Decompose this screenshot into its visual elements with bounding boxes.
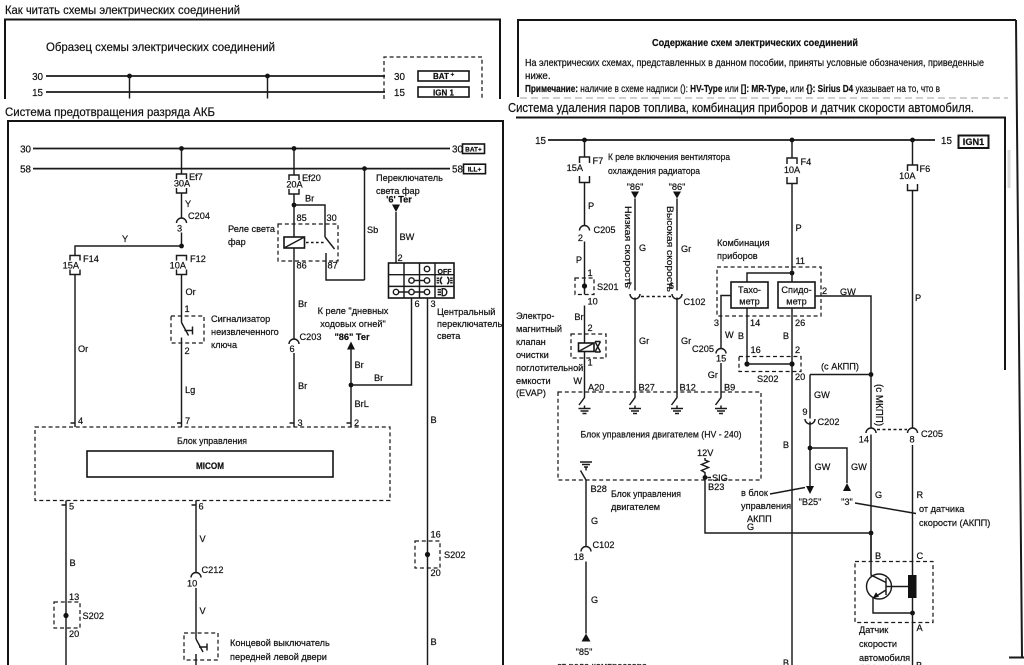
svg-text:C102: C102 bbox=[684, 297, 706, 307]
svg-text:F6: F6 bbox=[920, 164, 931, 174]
svg-text:S202: S202 bbox=[83, 611, 104, 621]
wire G into sensor pin B bbox=[871, 533, 881, 562]
svg-text:B: B bbox=[431, 415, 437, 425]
wire W from EVAP to ECM pin A20 bbox=[573, 358, 604, 393]
node: junction G line from ECM bbox=[869, 531, 874, 536]
connector C102 pins 7 / 6 bbox=[627, 281, 706, 307]
label: engine control module bbox=[611, 489, 681, 512]
wire V from MICOM pin 6 to C212 bbox=[196, 501, 207, 573]
svg-text:"86": "86" bbox=[669, 182, 686, 192]
svg-text:Сигнализатор: Сигнализатор bbox=[211, 314, 270, 324]
svg-text:BAT+: BAT+ bbox=[465, 147, 482, 154]
svg-text:3: 3 bbox=[177, 224, 182, 234]
wire from C204 to junction bbox=[181, 233, 183, 247]
wire Lg from switch pin 2 to MICOM pin 7 bbox=[182, 343, 196, 427]
node: junction bus30 / Ef7 bbox=[179, 146, 184, 151]
wire Br branch to light switch pin 6 bbox=[351, 298, 420, 385]
svg-text:5: 5 bbox=[69, 502, 74, 512]
svg-text:"B25": "B25" bbox=[799, 497, 822, 507]
wire B23 SIG down and right to sensor column bbox=[705, 478, 871, 534]
svg-text:G: G bbox=[639, 243, 646, 253]
svg-text:G: G bbox=[875, 490, 882, 500]
svg-text:(с АКПП): (с АКПП) bbox=[821, 362, 859, 372]
title: how to read wiring diagrams bbox=[5, 3, 240, 17]
node: sensor emitter junction pin A bbox=[910, 611, 923, 665]
label: instrument cluster bbox=[717, 238, 770, 261]
svg-text:15A: 15A bbox=[63, 261, 80, 271]
wire Gr from C205-15 to ECM pin B9 bbox=[708, 363, 735, 393]
svg-text:Содержание схем электрических: Содержание схем электрических соединений bbox=[652, 38, 858, 49]
svg-text:Br: Br bbox=[574, 312, 583, 322]
svg-text:6: 6 bbox=[290, 344, 295, 354]
svg-text:"3": "3" bbox=[841, 497, 853, 507]
svg-text:GW: GW bbox=[851, 462, 867, 472]
node: junction Y-branch bbox=[179, 244, 184, 249]
svg-text:Переключатель: Переключатель bbox=[376, 173, 443, 183]
svg-text:охлаждения радиатора: охлаждения радиатора bbox=[608, 166, 701, 176]
svg-text:клапан: клапан bbox=[516, 337, 546, 347]
svg-text:15: 15 bbox=[941, 136, 952, 147]
svg-text:C: C bbox=[917, 551, 924, 561]
svg-text:Примечание: наличие в схеме на: Примечание: наличие в схеме надписи (): … bbox=[525, 84, 940, 95]
svg-text:15: 15 bbox=[535, 136, 546, 147]
fuse Ef7 30A bbox=[174, 172, 203, 193]
page edge soft shadow bbox=[1008, 150, 1011, 188]
svg-text:Высокая скорость: Высокая скорость bbox=[665, 206, 675, 292]
wire Br from C203 to MICOM pin 3 bbox=[294, 353, 307, 428]
node: junction bus15 / F4 bbox=[790, 138, 795, 158]
svg-text:MICOM: MICOM bbox=[196, 461, 224, 472]
svg-text:B: B bbox=[70, 558, 76, 568]
connector C205 pin 2 bbox=[578, 225, 616, 243]
svg-text:"86" Ter: "86" Ter bbox=[334, 332, 370, 342]
label: low speed (vertical) bbox=[623, 206, 633, 288]
instrument cluster (dashed box) bbox=[717, 267, 821, 316]
svg-text:S201: S201 bbox=[597, 282, 618, 292]
svg-text:11: 11 bbox=[796, 256, 806, 266]
svg-text:2: 2 bbox=[185, 346, 190, 356]
svg-text:4: 4 bbox=[78, 416, 83, 426]
svg-text:ILL+: ILL+ bbox=[468, 167, 482, 174]
label: to daytime running lights relay bbox=[318, 306, 389, 342]
node: junction Br / BrL bbox=[349, 383, 354, 388]
wire C through sensor bbox=[913, 551, 924, 613]
svg-text:Y: Y bbox=[185, 199, 191, 209]
fuse Ef20 20A bbox=[286, 173, 321, 194]
svg-text:30: 30 bbox=[394, 72, 405, 83]
connector C102 pin 18 bbox=[574, 540, 615, 562]
fuse F6 10A bbox=[899, 164, 930, 191]
svg-text:C203: C203 bbox=[300, 332, 322, 342]
svg-text:26: 26 bbox=[795, 318, 805, 328]
svg-text:2: 2 bbox=[578, 233, 583, 243]
relay link (dashed) coil to contact bbox=[306, 242, 324, 244]
svg-text:W: W bbox=[573, 376, 582, 386]
headlamp relay (dashed box) bbox=[278, 224, 338, 261]
svg-text:управления: управления bbox=[741, 501, 791, 511]
label: key-left-in warning buzzer bbox=[211, 314, 279, 350]
paragraph line 1 bbox=[525, 58, 984, 69]
label: engine control module (HV - 240) bbox=[581, 430, 742, 440]
svg-text:1: 1 bbox=[588, 268, 593, 278]
svg-text:Gr: Gr bbox=[681, 336, 691, 346]
arrow terminal "85" from compressor relay bbox=[576, 634, 593, 658]
svg-text:К реле включения вентилятора: К реле включения вентилятора bbox=[608, 152, 731, 162]
connector C205 pin 15 bbox=[692, 344, 726, 364]
svg-text:Or: Or bbox=[78, 344, 88, 354]
relay coil bbox=[284, 224, 305, 261]
wire B from speedo pin 26 to S202 bbox=[783, 308, 805, 372]
svg-text:F7: F7 bbox=[593, 156, 604, 166]
fuse F12 10A bbox=[170, 254, 206, 275]
arrow up from "3" bbox=[841, 483, 853, 507]
wire: sample bus 30 bbox=[32, 72, 385, 83]
wire below S202 left bbox=[65, 628, 67, 665]
fuse F7 15A bbox=[567, 156, 604, 183]
icon: parking lights bbox=[437, 277, 453, 284]
svg-text:2: 2 bbox=[588, 323, 593, 333]
bus 58 bbox=[20, 165, 463, 176]
svg-text:ниже.: ниже. bbox=[525, 71, 551, 82]
connector C203 pin 6 bbox=[289, 332, 321, 354]
wire B from light switch pin 3 down bbox=[428, 298, 441, 568]
svg-text:Система удаления паров топлива: Система удаления паров топлива, комбинац… bbox=[508, 100, 974, 115]
splice S202 right (dashed) bbox=[415, 541, 465, 578]
svg-text:ключа: ключа bbox=[211, 340, 238, 350]
wire Y from Ef7 to C204 bbox=[182, 193, 192, 218]
svg-text:Br: Br bbox=[298, 381, 307, 391]
svg-text:87: 87 bbox=[328, 261, 338, 271]
arrow down from headlamp switch bbox=[392, 205, 400, 213]
svg-text:(с МКПП): (с МКПП) bbox=[873, 384, 884, 426]
wire Gr high speed to C102 pin 6 bbox=[677, 199, 691, 291]
svg-text:BAT: BAT bbox=[433, 72, 449, 81]
svg-text:Gr: Gr bbox=[681, 244, 691, 254]
svg-text:W: W bbox=[725, 330, 734, 340]
svg-text:30: 30 bbox=[20, 145, 31, 156]
svg-text:Br: Br bbox=[355, 360, 364, 370]
sensor transistor bbox=[867, 562, 913, 614]
svg-text:20A: 20A bbox=[286, 180, 303, 190]
svg-text:9: 9 bbox=[802, 407, 807, 417]
wire GW from speedo pin 2 bbox=[815, 286, 871, 428]
svg-text:B: B bbox=[738, 331, 744, 341]
svg-text:15: 15 bbox=[716, 354, 726, 364]
svg-text:10A: 10A bbox=[899, 171, 916, 181]
svg-text:C202: C202 bbox=[818, 417, 840, 427]
EVAP purge solenoid valve (dashed) bbox=[571, 334, 606, 358]
svg-text:GW: GW bbox=[814, 390, 830, 400]
wire P from F4 to cluster pin 11 bbox=[792, 184, 805, 268]
label: to radiator cooling fan relay bbox=[608, 152, 731, 176]
node: junction GW (с АКПП) bbox=[810, 362, 873, 377]
svg-text:Электро-: Электро- bbox=[516, 311, 554, 321]
label: vehicle speed sensor bbox=[859, 625, 910, 665]
svg-text:30A: 30A bbox=[174, 179, 191, 189]
splice S202 (dashed) with bridge bbox=[739, 357, 805, 385]
svg-text:Br: Br bbox=[298, 299, 307, 309]
svg-text:Ef20: Ef20 bbox=[302, 173, 321, 183]
svg-text:15A: 15A bbox=[567, 163, 584, 173]
node: junction Br branch to relay pin 30 bbox=[292, 194, 325, 238]
relay contact blade 30-87 bbox=[325, 237, 335, 261]
label: (with MT) vertical bbox=[873, 384, 884, 426]
svg-text:C205: C205 bbox=[692, 344, 714, 354]
svg-text:+: + bbox=[451, 72, 455, 79]
ECM internal switch+ground pin B27 bbox=[629, 392, 641, 414]
svg-text:ходовых огней": ходовых огней" bbox=[320, 319, 386, 329]
svg-text:B28: B28 bbox=[591, 484, 607, 494]
connector C202 pin 9 bbox=[802, 407, 839, 427]
svg-text:G: G bbox=[591, 516, 598, 526]
wire Sb from bus 58 bbox=[362, 166, 378, 280]
svg-text:G: G bbox=[747, 522, 754, 532]
svg-text:85: 85 bbox=[297, 213, 307, 223]
label: control unit bbox=[177, 436, 247, 446]
svg-text:GW: GW bbox=[815, 462, 831, 472]
label: EVAP canister purge solenoid bbox=[516, 311, 583, 398]
svg-text:16: 16 bbox=[431, 530, 441, 540]
label: headlamp switch '6' Ter bbox=[376, 173, 443, 205]
svg-text:R: R bbox=[917, 490, 924, 500]
svg-text:1: 1 bbox=[185, 304, 190, 314]
svg-text:B: B bbox=[916, 661, 922, 665]
wire Y branch to F14 bbox=[75, 234, 182, 256]
wire: bus30 down to fuse Ef7 bbox=[181, 149, 183, 175]
icon: headlights bbox=[438, 289, 447, 296]
right panel frame bbox=[516, 118, 1005, 371]
sample subtitle bbox=[46, 40, 275, 54]
note line bbox=[525, 84, 940, 95]
title: contents of wiring diagrams bbox=[652, 38, 858, 49]
wire Gr from C102-6 to ECM pin B12 bbox=[677, 298, 696, 393]
terminal "86" low speed bbox=[627, 182, 644, 199]
svg-text:B: B bbox=[783, 331, 789, 341]
terminal "86" high speed bbox=[669, 182, 686, 199]
node: sample junction dot 1 on bus 30 bbox=[127, 74, 132, 99]
svg-text:3: 3 bbox=[714, 318, 719, 328]
vehicle speed sensor (dashed box) bbox=[855, 562, 933, 623]
label: front left door limit switch bbox=[230, 638, 330, 662]
svg-text:V: V bbox=[200, 606, 207, 616]
wire B from MICOM pin 5 bbox=[66, 501, 79, 629]
wire B28 from ECM down to C102 pin 18 bbox=[586, 480, 607, 547]
svg-text:Образец схемы электрических с: Образец схемы электрических соединений bbox=[46, 40, 275, 54]
wire B from tacho pin 14 to S202 bbox=[738, 308, 761, 364]
svg-text:На электрических схемах, предс: На электрических схемах, представленных … bbox=[525, 58, 984, 69]
section title: battery discharge prevention system bbox=[5, 105, 215, 119]
svg-text:16: 16 bbox=[751, 345, 761, 355]
svg-text:емкости: емкости bbox=[516, 376, 551, 386]
wire P from C205 to S201 bbox=[576, 242, 593, 295]
svg-text:GW: GW bbox=[840, 287, 856, 297]
page edge line (scan artifact) bbox=[1009, 20, 1024, 658]
wire from relay 87 to Sb wire bbox=[326, 261, 365, 280]
svg-text:13: 13 bbox=[69, 592, 79, 602]
svg-text:20: 20 bbox=[795, 372, 805, 382]
svg-text:Комбинация: Комбинация bbox=[717, 238, 770, 248]
wire P from F6 to C205 pin 8 bbox=[913, 191, 922, 429]
key-in reminder switch (dashed) bbox=[171, 316, 204, 343]
svg-text:К реле "дневных: К реле "дневных bbox=[318, 306, 389, 316]
svg-text:C212: C212 bbox=[202, 565, 224, 575]
svg-text:метр: метр bbox=[739, 297, 759, 307]
svg-text:10: 10 bbox=[588, 297, 598, 307]
svg-text:12V: 12V bbox=[697, 448, 714, 458]
splice S202 left (dashed) bbox=[54, 602, 104, 639]
svg-text:"86": "86" bbox=[627, 182, 644, 192]
svg-text:Реле света: Реле света bbox=[228, 224, 276, 234]
svg-text:Система предотвращения разряда: Система предотвращения разряда АКБ bbox=[5, 105, 215, 119]
switch contacts row headlights bbox=[393, 289, 429, 294]
wire: sample bus 15 bbox=[32, 88, 385, 99]
wire P from F7 to C205 pin 2 bbox=[585, 183, 595, 226]
svg-text:OFF: OFF bbox=[438, 269, 453, 276]
svg-text:86: 86 bbox=[297, 261, 307, 271]
wire G low speed to C102 pin 7 bbox=[635, 199, 646, 291]
svg-text:'6' Ter: '6' Ter bbox=[386, 195, 412, 205]
svg-text:приборов: приборов bbox=[717, 251, 758, 261]
svg-text:15: 15 bbox=[394, 88, 405, 99]
wire bus30 down to fuse Ef20 bbox=[293, 149, 295, 176]
svg-text:BW: BW bbox=[400, 232, 415, 242]
label: to AT control unit with callout bbox=[741, 488, 805, 525]
wire B from S202-20 down (long) bbox=[783, 372, 792, 665]
ECM 12V pull-up and SIG bbox=[697, 448, 728, 483]
MICOM inner box bbox=[87, 451, 333, 477]
central light switch grid bbox=[389, 263, 455, 298]
svg-text:фар: фар bbox=[228, 237, 246, 247]
svg-text:10: 10 bbox=[187, 579, 197, 589]
node: junction bus30 / Ef20 bbox=[292, 146, 297, 151]
wire Br from relay 86 to C203 bbox=[294, 261, 307, 339]
svg-text:Блок управления: Блок управления bbox=[611, 489, 681, 499]
relay pin labels 85 / 30 bbox=[297, 213, 337, 223]
wire W from tacho pin 3 bbox=[714, 296, 734, 349]
ECM internal switch+ground pin A20 bbox=[579, 392, 591, 414]
svg-text:P: P bbox=[796, 223, 802, 233]
svg-text:B: B bbox=[431, 637, 437, 647]
bus label box ILL+ bbox=[464, 164, 486, 174]
svg-text:(EVAP): (EVAP) bbox=[516, 388, 546, 398]
svg-text:Sb: Sb bbox=[367, 225, 378, 235]
svg-text:15: 15 bbox=[32, 88, 43, 99]
svg-text:10A: 10A bbox=[784, 165, 801, 175]
svg-text:от реле компрессора: от реле компрессора bbox=[557, 661, 648, 665]
svg-text:G: G bbox=[591, 595, 598, 605]
svg-text:14: 14 bbox=[859, 435, 869, 445]
wire Br from S201 to EVAP valve bbox=[574, 306, 592, 335]
switch contacts row OFF bbox=[424, 266, 452, 276]
svg-text:очистки: очистки bbox=[516, 350, 549, 360]
relay pin labels 86 / 87 bbox=[297, 261, 338, 271]
svg-text:Br: Br bbox=[305, 194, 314, 204]
svg-text:3: 3 bbox=[431, 299, 436, 309]
connector C212 pin 10 bbox=[187, 565, 223, 589]
svg-text:Br: Br bbox=[374, 373, 383, 383]
svg-text:IGN1: IGN1 bbox=[963, 137, 984, 147]
svg-text:B: B bbox=[875, 551, 881, 561]
svg-text:A: A bbox=[917, 623, 924, 633]
svg-text:18: 18 bbox=[574, 552, 584, 562]
svg-text:10A: 10A bbox=[170, 261, 187, 271]
fuse F14 15A bbox=[63, 254, 99, 275]
tachometer box bbox=[731, 282, 768, 308]
svg-text:P: P bbox=[576, 255, 582, 265]
svg-text:света: света bbox=[437, 331, 461, 341]
node: sample junction dot 2 on bus 30 bbox=[265, 74, 270, 99]
svg-text:V: V bbox=[200, 534, 207, 544]
svg-text:B: B bbox=[783, 658, 789, 665]
svg-text:Спидо-: Спидо- bbox=[781, 285, 811, 295]
wire Or from F12 to key-in switch bbox=[182, 275, 196, 317]
svg-text:B: B bbox=[783, 440, 789, 450]
label: from speed sensor (AT) with callout bbox=[855, 503, 990, 528]
svg-text:C204: C204 bbox=[188, 211, 210, 221]
svg-text:передней левой двери: передней левой двери bbox=[230, 652, 327, 662]
svg-text:Тахо-: Тахо- bbox=[738, 285, 761, 295]
svg-text:B9: B9 bbox=[724, 383, 735, 393]
wire from Ef20 to relay pin 85 bbox=[293, 194, 295, 224]
svg-text:двигателем: двигателем bbox=[611, 502, 660, 512]
svg-text:1: 1 bbox=[588, 358, 593, 368]
MICOM control unit (dashed box) bbox=[35, 427, 390, 501]
ECM internal ground+switch pin B28 bbox=[580, 462, 592, 480]
svg-text:2: 2 bbox=[822, 286, 827, 296]
MICOM top pin labels 4 7 bbox=[78, 416, 190, 426]
svg-text:6: 6 bbox=[415, 299, 420, 309]
connector C205 pins 14 / 8 bbox=[859, 428, 943, 445]
fuse F4 10A bbox=[784, 157, 811, 184]
node: junction GW split bbox=[808, 446, 868, 483]
svg-text:IGN 1: IGN 1 bbox=[433, 89, 454, 98]
svg-text:автомобиля: автомобиля bbox=[859, 653, 910, 663]
svg-text:Lg: Lg bbox=[185, 385, 195, 395]
wire Br from DRL arrow down bbox=[351, 350, 364, 428]
power designation box IGN 1 bbox=[418, 87, 469, 98]
svg-text:в блок: в блок bbox=[741, 488, 769, 498]
svg-text:Датчик: Датчик bbox=[859, 625, 889, 635]
engine control module (dashed box) bbox=[558, 392, 761, 480]
svg-text:Концевой выключатель: Концевой выключатель bbox=[230, 638, 330, 648]
svg-text:B12: B12 bbox=[680, 383, 696, 393]
svg-text:"85": "85" bbox=[576, 647, 593, 657]
svg-text:F12: F12 bbox=[190, 254, 206, 264]
wire R from C205-8 to sensor pin C bbox=[913, 445, 924, 575]
svg-text:переключатель: переключатель bbox=[437, 319, 502, 329]
speedometer box bbox=[778, 282, 815, 308]
svg-text:Ef7: Ef7 bbox=[189, 172, 203, 182]
power designation box BAT+ bbox=[418, 71, 469, 81]
arrow up to DRL relay bbox=[347, 342, 355, 350]
svg-text:поглотительной: поглотительной bbox=[516, 363, 583, 373]
svg-text:P: P bbox=[588, 201, 594, 211]
connector C204 pin 3 bbox=[177, 211, 210, 234]
wire Gr from C102-7 to ECM pin B27 bbox=[635, 298, 655, 393]
wire GW from C202 to B25 arrow bbox=[810, 422, 831, 487]
bus label box IGN1 bbox=[959, 136, 989, 149]
wire B below S202 right bbox=[428, 568, 437, 665]
sample section frame bbox=[5, 20, 500, 100]
dashed box around power designations bbox=[384, 57, 482, 99]
arrow down to AT control unit "B25" bbox=[799, 486, 822, 507]
pin hooks at MICOM box edges bbox=[62, 423, 352, 505]
svg-text:14: 14 bbox=[750, 318, 760, 328]
svg-text:A20: A20 bbox=[588, 383, 604, 393]
section title: EVAP purge, instrument cluster and vehicle speed sensor bbox=[508, 100, 974, 115]
svg-text:58: 58 bbox=[452, 165, 463, 176]
wire V from C212 to door switch bbox=[196, 588, 207, 633]
